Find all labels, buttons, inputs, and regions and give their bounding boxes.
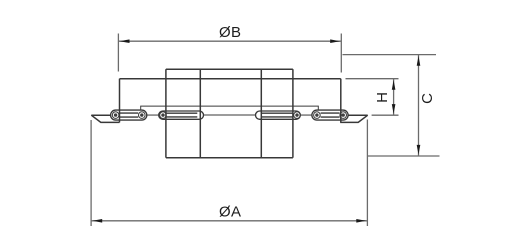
svg-text:ØA: ØA xyxy=(219,203,241,220)
svg-text:H: H xyxy=(374,92,391,103)
svg-text:ØB: ØB xyxy=(219,24,241,41)
svg-text:C: C xyxy=(419,93,436,104)
